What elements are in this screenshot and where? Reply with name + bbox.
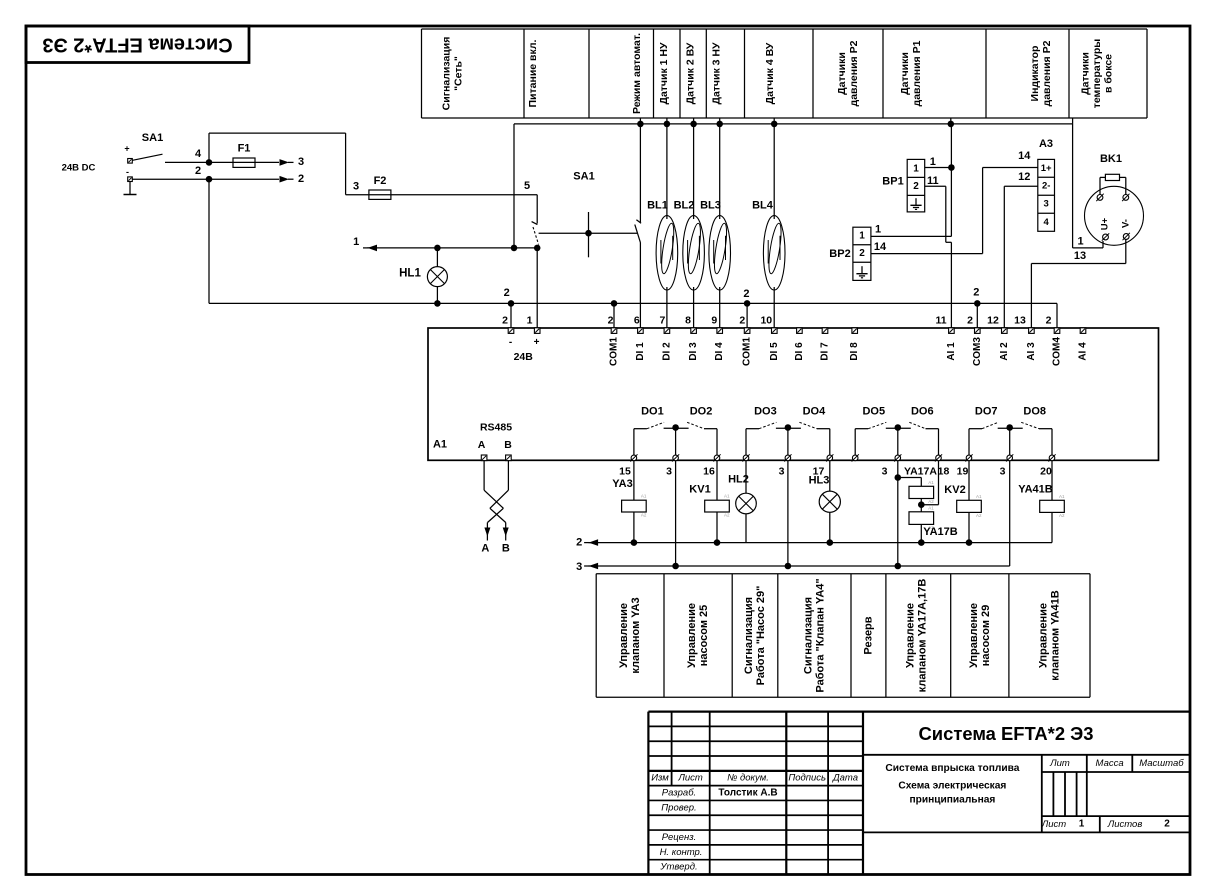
svg-text:Лит: Лит (1049, 758, 1070, 769)
wire 2 (node 2 down to minus bus) (208, 179, 210, 303)
svg-text:V-: V- (1121, 219, 1132, 228)
function box «Управление клапаном YA41B» (1038, 590, 1062, 680)
svg-text:Датчики: Датчики (836, 52, 848, 95)
svg-text:"Сеть": "Сеть" (453, 56, 465, 91)
function box «Датчики давления Р1» (899, 40, 923, 106)
A1 input terminal (1054, 328, 1060, 334)
A1 top terminal numbers (502, 315, 1052, 327)
title block grid (648, 712, 1190, 875)
function box «Режим автомат.» (631, 33, 643, 114)
svg-text:насосом 29: насосом 29 (980, 605, 992, 667)
function box «Датчики давления Р2» (836, 40, 860, 106)
terminal - of SA1 (128, 177, 133, 182)
svg-text:U+: U+ (1100, 217, 1111, 230)
level sensor BL4 (752, 124, 785, 331)
stub bus2 to COM1(2) (746, 303, 748, 330)
svg-text:B: B (502, 543, 510, 555)
function box «Сигнализация Работа Клапан YA4» (803, 578, 827, 692)
svg-text:Сигнализация: Сигнализация (743, 597, 755, 674)
A1 input terminal (717, 328, 723, 334)
svg-text:Датчики: Датчики (1080, 52, 1092, 95)
level sensor BL3 (700, 124, 730, 331)
svg-text:2: 2 (195, 165, 201, 177)
svg-text:2: 2 (504, 287, 510, 299)
switch SA1 (2-pole, left pole) (124, 132, 209, 179)
wire 3 return bus (576, 561, 1010, 573)
svg-text:2: 2 (913, 181, 919, 192)
svg-text:COM3: COM3 (972, 337, 983, 366)
svg-text:Работа "Насос 29": Работа "Насос 29" (755, 586, 767, 686)
svg-text:20: 20 (1040, 465, 1052, 477)
svg-text:12: 12 (1018, 171, 1030, 183)
valve coil YA17A (898, 478, 922, 487)
svg-text:Управление: Управление (1038, 603, 1050, 668)
svg-text:Управление: Управление (905, 603, 917, 668)
svg-text:19: 19 (957, 465, 969, 477)
svg-text:Сигнализация: Сигнализация (441, 37, 453, 111)
svg-text:DI 8: DI 8 (849, 342, 860, 361)
svg-text:COM1: COM1 (742, 337, 753, 366)
svg-text:AI 1: AI 1 (946, 342, 957, 361)
svg-text:DI 1: DI 1 (635, 342, 646, 361)
svg-text:давления Р1: давления Р1 (911, 40, 923, 106)
svg-text:14: 14 (874, 241, 887, 253)
svg-text:насосом 25: насосом 25 (698, 605, 710, 667)
junction on bus 2 (611, 300, 618, 307)
A1 output terminal (935, 454, 942, 461)
svg-text:DI 4: DI 4 (714, 342, 725, 361)
svg-text:A1: A1 (928, 480, 934, 485)
relay contacts DO7/DO8 (969, 422, 1052, 455)
svg-text:7: 7 (659, 315, 665, 327)
svg-text:A2: A2 (976, 513, 982, 518)
svg-text:11: 11 (927, 175, 939, 187)
bus2 labels 2 (504, 287, 980, 301)
node junction at wire 1 / SA1 pole1 (534, 245, 541, 252)
svg-text:3: 3 (882, 465, 888, 477)
svg-text:температуры: температуры (1091, 39, 1103, 109)
wire 13 (BK1 V- to AI3) (1031, 240, 1125, 331)
svg-text:DO2: DO2 (690, 406, 713, 418)
wire 1 BP2.1 (871, 224, 952, 237)
svg-text:1: 1 (1079, 819, 1085, 830)
svg-text:A3: A3 (1039, 138, 1053, 150)
bottom function band boxes (596, 574, 1090, 698)
function box «Управление насосом 25» (686, 603, 710, 668)
A1 input terminal (852, 328, 858, 334)
svg-text:2: 2 (576, 536, 582, 548)
svg-text:-: - (509, 337, 512, 348)
pressure sensor BP2 (829, 227, 871, 280)
svg-text:2: 2 (967, 315, 973, 327)
svg-text:B: B (504, 439, 512, 451)
svg-text:2: 2 (973, 287, 979, 299)
A1 input terminal (822, 328, 828, 334)
stub+junction to band (Датчик 4) (771, 118, 778, 127)
svg-text:Масштаб: Масштаб (1139, 758, 1184, 769)
wire 3 DO1/2 common down (672, 461, 679, 569)
svg-text:2: 2 (298, 173, 304, 185)
svg-text:2: 2 (1046, 315, 1052, 327)
svg-text:1+: 1+ (1041, 163, 1052, 174)
svg-text:Листов: Листов (1107, 819, 1143, 830)
svg-text:A: A (481, 543, 489, 555)
svg-text:DO8: DO8 (1023, 406, 1046, 418)
svg-text:3: 3 (353, 181, 359, 193)
SA1 linkage to pole 2 (539, 171, 637, 258)
svg-text:SA1: SA1 (142, 132, 163, 144)
A1 output terminal (713, 454, 720, 461)
function box «Управление насосом 29» (968, 603, 992, 668)
A1 input terminal (1002, 328, 1008, 334)
svg-text:Датчик 1 НУ: Датчик 1 НУ (658, 42, 670, 105)
svg-text:1: 1 (1077, 236, 1083, 248)
function box «Датчики температуры в боксе» (1080, 39, 1115, 109)
svg-text:AI 4: AI 4 (1078, 342, 1089, 361)
relay contacts DO1/DO2 (634, 422, 717, 455)
A1 output terminal (852, 454, 859, 461)
svg-text:Питание вкл.: Питание вкл. (527, 39, 539, 107)
svg-text:16: 16 (703, 465, 715, 477)
svg-text:A1: A1 (724, 494, 730, 499)
svg-text:Схема электрическая: Схема электрическая (898, 780, 1006, 791)
svg-text:№ докум.: № докум. (727, 773, 769, 784)
svg-text:A2: A2 (724, 513, 730, 518)
svg-text:F1: F1 (238, 143, 251, 155)
valve coil YA41B (1018, 461, 1053, 500)
wire 3 DO5/6 common down (895, 461, 902, 569)
svg-text:Масса: Масса (1096, 758, 1124, 769)
RS485 terminal B (506, 455, 512, 461)
svg-text:SA1: SA1 (573, 171, 594, 183)
A1 input terminal (534, 328, 540, 334)
svg-text:принципиальная: принципиальная (909, 794, 995, 805)
svg-text:DO6: DO6 (911, 406, 934, 418)
A1 output terminal (965, 454, 972, 461)
svg-text:DO5: DO5 (862, 406, 885, 418)
svg-text:2: 2 (608, 315, 614, 327)
RS485 terminal A (481, 455, 487, 461)
svg-text:Датчик 3 НУ: Датчик 3 НУ (711, 42, 723, 105)
wire 11 BP1.2 (925, 175, 946, 236)
RS485 B arrow out (502, 523, 510, 555)
RS485 port (478, 422, 513, 452)
A1 input terminal (744, 328, 750, 334)
svg-text:12: 12 (987, 315, 999, 327)
A1 input terminal (797, 328, 803, 334)
svg-text:BL1: BL1 (647, 200, 668, 212)
A1 bottom terminal numbers (619, 465, 1052, 477)
svg-text:COM1: COM1 (609, 337, 620, 366)
switch SA1 pole 1 (532, 195, 539, 245)
stub+junction to band (Режим автомат.) (637, 118, 644, 127)
svg-text:давления Р2: давления Р2 (1041, 40, 1053, 106)
svg-text:A2: A2 (641, 513, 647, 518)
BK1 pin labels U+ / V- (1100, 217, 1132, 230)
svg-text:Управление: Управление (968, 603, 980, 668)
stub+junction to band (Датчик 2) (690, 118, 697, 127)
level sensor BL2 (674, 124, 705, 331)
ground symbol (124, 182, 137, 195)
wire 1 (top bus to BK1 U+) (1073, 124, 1103, 248)
node 2 junction (195, 165, 212, 183)
svg-text:BL2: BL2 (674, 200, 695, 212)
svg-text:24В: 24В (514, 351, 534, 363)
svg-text:DO3: DO3 (754, 406, 777, 418)
svg-text:Управление: Управление (618, 603, 630, 668)
svg-text:3: 3 (576, 561, 582, 573)
svg-text:RS485: RS485 (480, 422, 512, 434)
svg-text:6: 6 (634, 315, 640, 327)
svg-text:BP1: BP1 (882, 176, 903, 188)
svg-text:A1: A1 (976, 494, 982, 499)
svg-text:11: 11 (935, 315, 946, 327)
relay contacts DO5/DO6 (855, 422, 938, 455)
svg-text:DI 6: DI 6 (794, 342, 805, 361)
A1 input terminal (1080, 328, 1086, 334)
A1 input terminal (611, 328, 617, 334)
relay coil KV2 (944, 461, 969, 500)
top signal bus (514, 123, 1073, 125)
svg-text:Система EFTA*2 Э3: Система EFTA*2 Э3 (919, 723, 1094, 744)
stub bus2 to terminal - (510, 303, 512, 330)
svg-text:2: 2 (743, 288, 749, 300)
wire 2 arrow (to sheet 2) (209, 173, 304, 185)
A1 input terminal (638, 328, 644, 334)
title block fields (1041, 758, 1184, 830)
A1 input terminal (975, 328, 981, 334)
A1 output terminal (630, 454, 637, 461)
svg-text:Изм: Изм (651, 773, 669, 784)
svg-text:1: 1 (875, 224, 881, 236)
A1 output terminal (672, 454, 679, 461)
svg-text:13: 13 (1014, 315, 1026, 327)
svg-text:Провер.: Провер. (661, 802, 696, 813)
A1 input terminal (664, 328, 670, 334)
controller A1 box (428, 328, 1159, 460)
svg-text:Режим автомат.: Режим автомат. (631, 33, 643, 114)
function box «Сигнализация Работа Насос 29» (743, 586, 767, 686)
fuse F1 (209, 143, 279, 168)
wire 14 BP2.2 to A3 (871, 168, 1038, 254)
stub bus2 to COM1 (613, 303, 615, 330)
wire + down to terminal 1 of A1 (536, 248, 538, 331)
stub to band (Датчики температуры) (1072, 118, 1074, 124)
fuse F2 (346, 175, 538, 199)
svg-text:3: 3 (1044, 199, 1049, 210)
level sensor BL1 (647, 124, 678, 331)
A1 output terminal (1006, 454, 1013, 461)
svg-text:Управление: Управление (686, 603, 698, 668)
svg-text:+: + (534, 337, 540, 348)
svg-text:Лист: Лист (1041, 819, 1067, 830)
svg-text:BL4: BL4 (752, 200, 774, 212)
svg-text:COM4: COM4 (1052, 337, 1063, 366)
wire 1 BP1.1 to node (925, 156, 955, 171)
svg-text:1: 1 (859, 231, 865, 242)
RS485 A arrow out (481, 523, 490, 555)
svg-text:BL3: BL3 (700, 200, 721, 212)
pressure sensor BP1 (882, 159, 924, 212)
junction on bus 2 (744, 300, 751, 307)
svg-text:Н. контр.: Н. контр. (660, 847, 703, 858)
svg-text:2: 2 (859, 248, 865, 259)
stub+junction to band (Датчик 3) (716, 118, 723, 127)
A1 output terminal (784, 454, 791, 461)
A1 terminal signs - + (509, 337, 540, 363)
svg-text:DI 2: DI 2 (661, 342, 672, 361)
top function band boxes (422, 29, 1148, 118)
svg-text:2-: 2- (1042, 181, 1050, 192)
svg-text:DI 5: DI 5 (769, 342, 780, 361)
temperature sensor BK1 (1085, 153, 1144, 245)
svg-text:2: 2 (1164, 819, 1170, 830)
svg-text:YA17B: YA17B (923, 526, 958, 538)
BK1 pin screws (1096, 194, 1103, 201)
svg-text:Система EFTA*2 Э3: Система EFTA*2 Э3 (42, 34, 232, 56)
title stamp (rotated 180) "Система EFTA*2 Э3" (26, 26, 249, 63)
svg-text:A1: A1 (928, 505, 934, 510)
wire 1 row (lamp supply) (353, 236, 537, 251)
svg-text:A1: A1 (433, 439, 447, 451)
terminal + of SA1 (128, 159, 133, 164)
A1 output terminal (742, 454, 749, 461)
function box «Датчик 1 НУ» (658, 42, 670, 105)
svg-text:+: + (124, 144, 129, 154)
svg-text:1: 1 (527, 315, 533, 327)
svg-text:2: 2 (502, 315, 508, 327)
function box «Сигнализация Сеть» (441, 37, 465, 111)
A1 input terminal (772, 328, 778, 334)
A1 input terminal (691, 328, 697, 334)
svg-text:клапаном YA17A,17B: клапаном YA17A,17B (917, 579, 929, 693)
svg-text:1: 1 (930, 156, 936, 168)
svg-text:A2: A2 (928, 499, 934, 504)
wire 2 bus (24V minus rail) (209, 303, 1057, 330)
title block headers (651, 773, 858, 873)
lamp HL2 (728, 461, 749, 493)
stub bus2 to COM3 (976, 303, 978, 330)
A1 output terminal (894, 454, 901, 461)
junction on bus 2 (974, 300, 981, 307)
svg-text:Резерв: Резерв (863, 616, 875, 654)
svg-text:3: 3 (1000, 465, 1006, 477)
function box «Датчик 2 ВУ» (685, 42, 697, 104)
svg-text:A1: A1 (1059, 494, 1065, 499)
document title (885, 723, 1093, 805)
svg-text:AI 3: AI 3 (1026, 342, 1037, 361)
wire from top bus down (Питание вкл.) (513, 124, 515, 248)
stub+junction to band (Датчик 1) (664, 118, 671, 127)
svg-text:15: 15 (619, 465, 631, 477)
svg-text:A1: A1 (641, 494, 647, 499)
svg-text:YA17A: YA17A (904, 465, 937, 477)
valve coil YA3 (612, 461, 634, 500)
svg-text:Подпись: Подпись (788, 773, 826, 784)
svg-text:Утверд.: Утверд. (659, 862, 697, 873)
svg-text:14: 14 (1018, 150, 1031, 162)
indicator A3 terminal block (1038, 138, 1055, 231)
svg-text:9: 9 (711, 315, 717, 327)
A1 output terminal (826, 454, 833, 461)
svg-text:3: 3 (666, 465, 672, 477)
svg-text:давления Р2: давления Р2 (848, 40, 860, 106)
function box «Питание вкл.» (527, 39, 539, 107)
A1 input terminal (1029, 328, 1035, 334)
svg-text:8: 8 (685, 315, 691, 327)
svg-text:24В DC: 24В DC (62, 163, 96, 174)
svg-text:YA3: YA3 (612, 478, 632, 490)
svg-text:KV1: KV1 (689, 484, 710, 496)
wire 12 A3 to AI2 (1004, 171, 1038, 331)
relay coil KV1 (689, 461, 717, 500)
svg-text:DI 3: DI 3 (688, 342, 699, 361)
RS485 twisted pair (484, 461, 508, 523)
svg-text:Индикатор: Индикатор (1029, 46, 1041, 102)
svg-text:3: 3 (779, 465, 785, 477)
svg-text:Датчики: Датчики (899, 52, 911, 95)
wire 3 DO7/8 common down (1009, 461, 1011, 566)
function box «Датчик 4 ВУ» (764, 42, 776, 104)
A1 input terminal (508, 328, 514, 334)
junction on bus 2 (434, 300, 441, 307)
svg-text:AI 2: AI 2 (999, 342, 1010, 361)
wire 3 DO3/4 common down (785, 461, 792, 569)
A1 input terminal (949, 328, 955, 334)
svg-text:DO1: DO1 (641, 406, 664, 418)
svg-text:Система впрыска топлива: Система впрыска топлива (885, 763, 1019, 774)
svg-text:1: 1 (913, 164, 919, 175)
svg-text:HL3: HL3 (809, 475, 830, 487)
svg-text:Датчик 4 ВУ: Датчик 4 ВУ (764, 42, 776, 104)
svg-text:Разраб.: Разраб. (662, 788, 696, 799)
svg-text:A2: A2 (1059, 513, 1065, 518)
svg-text:KV2: KV2 (944, 484, 965, 496)
svg-text:ВР2: ВР2 (829, 248, 850, 260)
svg-text:BK1: BK1 (1100, 153, 1122, 165)
A1 output terminal (1048, 454, 1055, 461)
svg-text:1: 1 (353, 236, 359, 248)
svg-text:Работа "Клапан YA4": Работа "Клапан YA4" (815, 578, 827, 692)
svg-text:10: 10 (760, 315, 772, 327)
svg-text:в боксе: в боксе (1103, 54, 1115, 93)
svg-text:DI 7: DI 7 (820, 342, 831, 361)
wire 2 return bus (loads) (576, 536, 1052, 548)
svg-text:4: 4 (195, 148, 202, 160)
svg-text:3: 3 (298, 156, 304, 168)
function box «Датчик 3 НУ» (711, 42, 723, 105)
svg-text:клапаном YA3: клапаном YA3 (630, 597, 642, 673)
lamp HL3 (809, 461, 830, 491)
function box «Индикатор давления Р2» (1029, 40, 1053, 106)
svg-text:F2: F2 (374, 175, 387, 187)
relay contacts DO3/DO4 (746, 422, 830, 455)
svg-text:DO4: DO4 (803, 406, 827, 418)
function box «Управление клапаном YA3» (618, 597, 642, 673)
svg-text:13: 13 (1074, 250, 1086, 262)
svg-text:DO7: DO7 (975, 406, 998, 418)
svg-text:YA41B: YA41B (1018, 484, 1053, 496)
wire 3 (node 4 up and over to F2) (209, 133, 346, 195)
svg-text:-: - (126, 167, 129, 177)
svg-text:Сигнализация: Сигнализация (803, 597, 815, 674)
node 4 junction (195, 148, 212, 166)
svg-text:Толстик А.В: Толстик А.В (718, 788, 777, 799)
wire 11 down to AI1 (with jog) (946, 124, 952, 331)
svg-text:4: 4 (1044, 217, 1050, 228)
svg-text:5: 5 (524, 180, 530, 192)
stub+junction to band (Датчики давления Р1) (948, 118, 955, 127)
